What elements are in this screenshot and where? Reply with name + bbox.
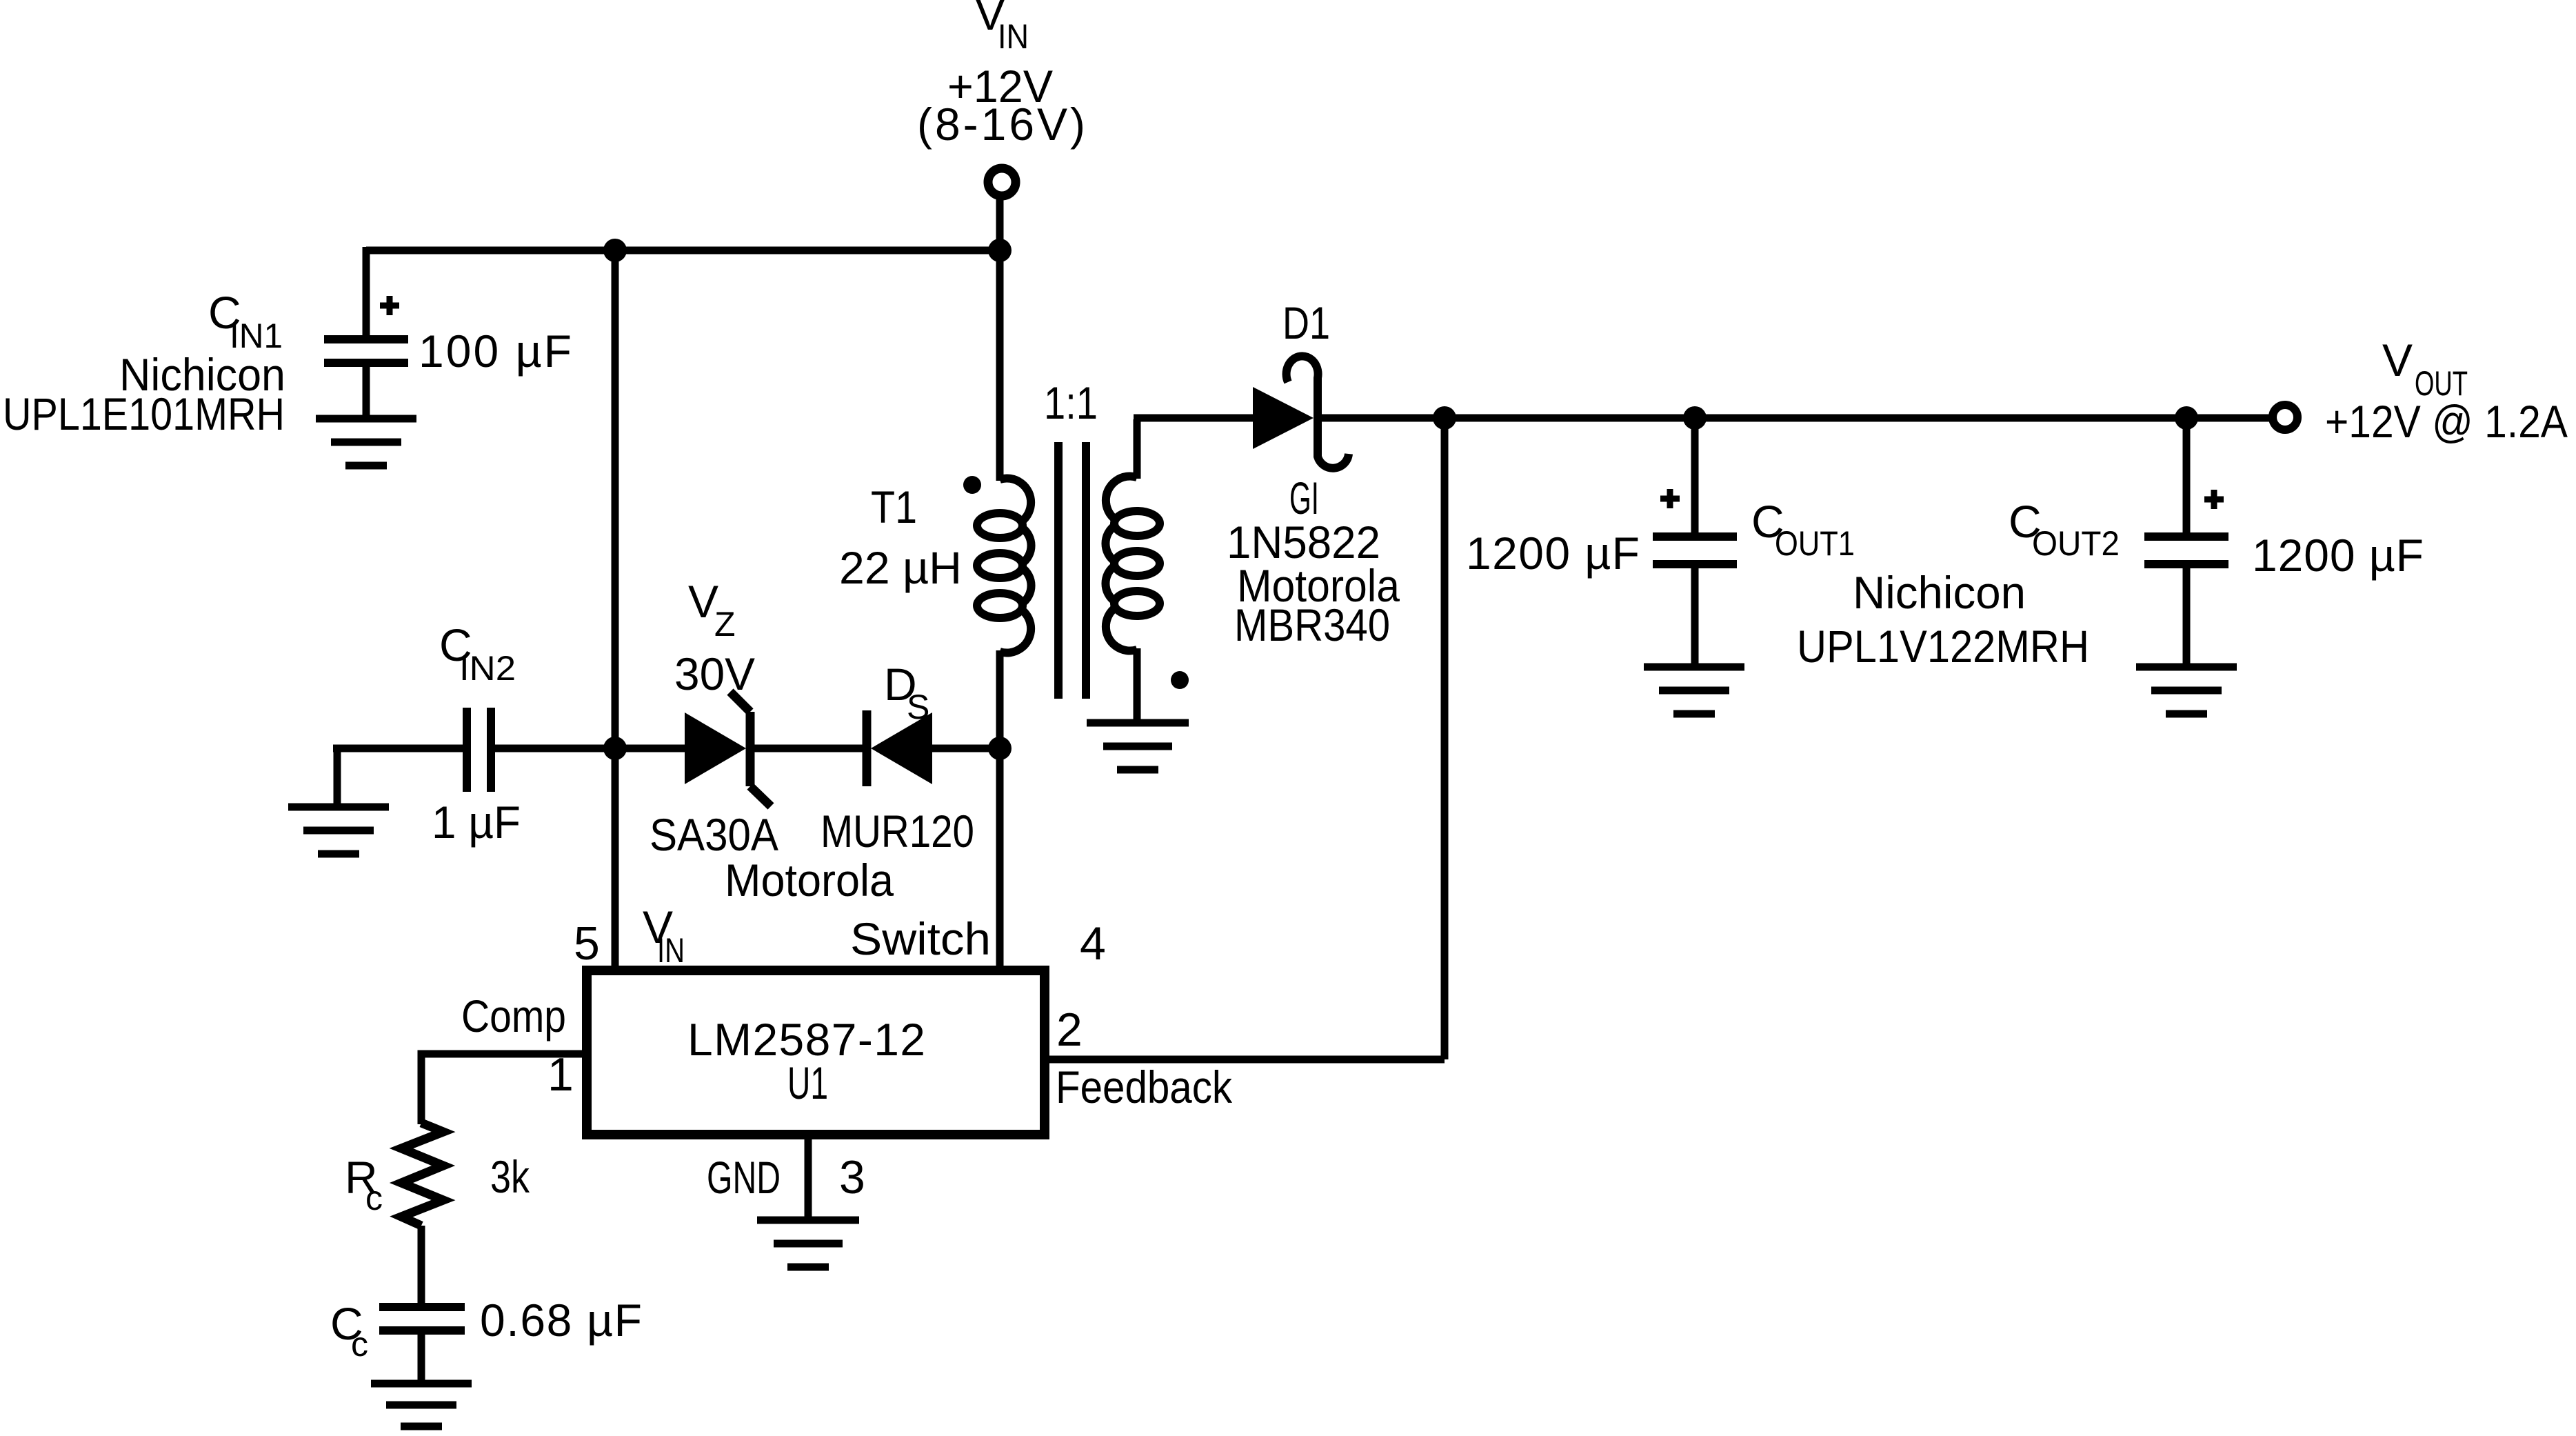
svg-text:c: c xyxy=(351,1325,368,1364)
wire zener cathode to DS cathode xyxy=(754,745,863,752)
wire VIN terminal lead xyxy=(996,196,1004,250)
ground COUT2 xyxy=(2136,667,2237,714)
wire COUT1 bottom lead xyxy=(1691,563,1699,664)
resistor RC 3k xyxy=(401,1123,443,1226)
node COUT1 junction xyxy=(1683,406,1707,430)
terminal VIN xyxy=(988,168,1016,196)
wire Cc bottom lead xyxy=(418,1333,425,1384)
node feedback junction xyxy=(1433,406,1456,430)
svg-text:GND: GND xyxy=(707,1152,781,1203)
node switch junction xyxy=(988,737,1012,760)
phase dot T1 primary xyxy=(963,476,981,494)
wire top input rail xyxy=(366,247,1000,255)
svg-text:+12V @ 1.2A: +12V @ 1.2A xyxy=(2325,396,2568,447)
polarity + COUT2 xyxy=(2204,490,2224,509)
wire feedback vertical xyxy=(1441,418,1449,1059)
wire CIN1 top lead xyxy=(363,247,370,335)
wire DS anode to switch node xyxy=(932,745,1000,752)
wire VIN-rail branch down to U1 pin 5 xyxy=(612,250,619,967)
svg-text:Motorola: Motorola xyxy=(725,855,894,906)
node CIN2 / zener junction xyxy=(603,737,627,760)
svg-text:3k: 3k xyxy=(490,1151,530,1202)
svg-text:IN2: IN2 xyxy=(459,649,516,688)
svg-text:Switch: Switch xyxy=(850,913,991,964)
wire U1 pin 1 Comp lead xyxy=(425,1050,583,1058)
svg-text:V: V xyxy=(2382,335,2413,386)
svg-text:GI: GI xyxy=(1289,472,1319,523)
transformer T1 core xyxy=(1054,442,1090,699)
transformer T1 secondary winding xyxy=(1105,477,1160,651)
svg-text:S: S xyxy=(907,688,929,726)
svg-text:5: 5 xyxy=(574,917,600,970)
wire switch node down to U1 pin 4 xyxy=(996,748,1004,967)
wire CIN2 left lead xyxy=(333,745,463,752)
capacitor COUT2 1200uF xyxy=(2144,537,2228,564)
wire T1 secondary to D1 anode xyxy=(1134,415,1254,422)
svg-text:1200 µF: 1200 µF xyxy=(2252,530,2424,581)
wire VIN rail down to T1 primary xyxy=(996,250,1004,481)
svg-text:MBR340: MBR340 xyxy=(1234,599,1390,650)
svg-text:30V: 30V xyxy=(674,648,755,699)
svg-text:1: 1 xyxy=(547,1048,574,1101)
svg-text:OUT2: OUT2 xyxy=(2032,524,2120,563)
diode DS MUR120 xyxy=(867,710,932,786)
svg-text:IN: IN xyxy=(998,17,1029,56)
svg-text:100 µF: 100 µF xyxy=(419,326,572,377)
svg-text:MUR120: MUR120 xyxy=(821,806,974,857)
diode D1 curved cathode xyxy=(1287,356,1349,468)
wire T1 primary bottom to switch node xyxy=(996,650,1004,748)
node COUT2 junction xyxy=(2175,406,2198,430)
svg-text:(8-16V): (8-16V) xyxy=(917,99,1085,150)
capacitor COUT1 1200uF xyxy=(1653,537,1737,564)
diode D1 1N5822 xyxy=(1253,387,1314,449)
polarity + CIN1 xyxy=(380,296,399,315)
capacitor CIN2 1uF xyxy=(467,708,491,792)
svg-text:c: c xyxy=(365,1179,383,1217)
wire feedback to U1 pin 2 xyxy=(1048,1056,1445,1064)
svg-text:Feedback: Feedback xyxy=(1056,1061,1233,1113)
wire COUT1 top lead xyxy=(1691,418,1699,533)
phase dot T1 secondary xyxy=(1171,671,1189,689)
svg-text:3: 3 xyxy=(839,1151,865,1204)
svg-text:UPL1V122MRH: UPL1V122MRH xyxy=(1797,621,2089,672)
svg-text:Comp: Comp xyxy=(461,990,566,1041)
polarity + COUT1 xyxy=(1660,489,1680,508)
wire output rail xyxy=(1316,415,2273,422)
wire T1 secondary bottom lead xyxy=(1134,648,1141,721)
svg-text:UPL1E101MRH: UPL1E101MRH xyxy=(3,388,285,439)
wire Comp corner down to Rc xyxy=(421,1054,425,1124)
op-amp U1 LM2587-12 box xyxy=(587,970,1045,1135)
wire U1 pin 3 GND lead xyxy=(805,1135,812,1217)
svg-text:Z: Z xyxy=(714,605,736,644)
wire CIN2 ground lead xyxy=(334,748,341,804)
svg-text:1 µF: 1 µF xyxy=(432,797,521,848)
ground CC xyxy=(371,1384,472,1426)
ground COUT1 xyxy=(1644,667,1744,714)
transformer T1 primary winding xyxy=(977,479,1032,653)
ground U1 GND xyxy=(757,1220,859,1267)
svg-text:0.68 µF: 0.68 µF xyxy=(480,1295,642,1346)
wire T1 secondary top lead xyxy=(1134,419,1141,479)
ground T1 secondary xyxy=(1087,723,1189,770)
svg-text:4: 4 xyxy=(1080,917,1106,970)
svg-text:1200 µF: 1200 µF xyxy=(1466,528,1640,579)
wire COUT2 top lead xyxy=(2183,418,2191,533)
svg-text:1:1: 1:1 xyxy=(1044,377,1098,428)
wire CIN1 bottom lead xyxy=(363,366,370,416)
svg-text:U1: U1 xyxy=(787,1057,828,1108)
zener VZ SA30A xyxy=(685,692,771,806)
svg-text:SA30A: SA30A xyxy=(650,809,778,860)
svg-text:2: 2 xyxy=(1056,1004,1083,1056)
svg-text:IN: IN xyxy=(657,931,685,970)
svg-text:Nichicon: Nichicon xyxy=(1853,567,2026,618)
node VIN junction xyxy=(988,239,1012,262)
svg-text:OUT1: OUT1 xyxy=(1775,524,1855,563)
node input-rail / pin5 branch junction xyxy=(603,239,627,262)
svg-text:T1: T1 xyxy=(871,481,917,532)
capacitor CC 0.68uF xyxy=(379,1307,465,1330)
terminal VOUT xyxy=(2273,405,2297,430)
ground CIN1 xyxy=(316,419,416,466)
svg-text:D1: D1 xyxy=(1282,297,1330,348)
wire COUT2 bottom lead xyxy=(2183,563,2191,664)
ground CIN2 xyxy=(288,807,389,854)
svg-text:22 µH: 22 µH xyxy=(839,542,962,593)
capacitor CIN1 100uF xyxy=(324,339,408,363)
wire Rc to Cc xyxy=(418,1226,425,1306)
wire CIN2 to zener anode xyxy=(491,745,686,752)
